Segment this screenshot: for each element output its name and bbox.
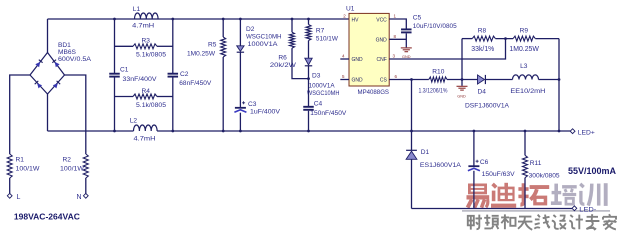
svg-text:L1: L1 [133,6,141,13]
capacitor C5 [401,29,412,32]
pin number 8 GND [394,34,397,39]
wire C5 to GND pin row [389,33,406,47]
pin name GND left2 [352,78,364,84]
resistor R4 [133,94,157,99]
svg-text:D2: D2 [246,26,255,33]
junction dot bus D1 [410,130,413,133]
junction dots D2 C3 [239,18,242,133]
svg-text:L: L [17,194,21,201]
capacitor C1 [109,74,120,77]
wire bridge left vertex to L input [10,75,30,154]
svg-text:4.7mH: 4.7mH [132,23,154,30]
svg-text:10uF/10V/0805: 10uF/10V/0805 [413,23,457,30]
wire R4 rung [115,96,173,98]
label C5 [413,15,457,30]
label GND net CS [457,93,466,98]
wire CS junction down to bus [411,80,413,132]
svg-text:R4: R4 [142,88,151,95]
wire bridge positive output riser [47,19,49,53]
wire R8 left corner [462,38,472,40]
svg-text:R9: R9 [520,28,529,35]
svg-text:C1: C1 [120,67,129,74]
label GND net C5 [402,54,411,59]
wire left ladder rail lower [114,78,116,132]
label D2 [246,26,282,48]
wire bus to D1 [411,131,413,150]
svg-text:510/1W: 510/1W [316,36,339,43]
watermark red characters yi di tuo pei xun [467,183,606,208]
svg-text:C5: C5 [413,15,422,22]
svg-text:1uF/400V: 1uF/400V [250,109,281,116]
label R7 [316,28,339,43]
svg-text:C6: C6 [480,159,489,166]
wire D2 to C3 [239,52,241,108]
terminal LED+ [570,129,595,137]
svg-text:D1: D1 [421,149,430,156]
pin number 4 GND [342,54,345,59]
label L3 [510,63,545,95]
svg-text:C3: C3 [248,101,257,108]
wire R6 top [291,19,293,32]
svg-text:R10: R10 [432,68,444,75]
svg-text:EE10/2mH: EE10/2mH [510,88,545,95]
resistor R1 [7,154,12,178]
resistor R11 [523,155,528,177]
wire R3 rung [115,45,173,47]
svg-text:150nF/450V: 150nF/450V [310,110,347,117]
svg-text:BD1: BD1 [58,42,71,49]
svg-text:D3: D3 [312,73,321,80]
pin name CNF [377,57,387,63]
svg-text:N: N [77,194,82,201]
pin name GND left1 [352,57,364,63]
svg-text:D4: D4 [478,89,487,96]
svg-text:150uF/63V: 150uF/63V [482,171,516,178]
svg-text:MB6S: MB6S [58,49,77,56]
wire D4 to L3 [485,79,512,81]
svg-text:ES1J600V1A: ES1J600V1A [420,162,462,169]
wire bottom bus mid segment [157,130,570,132]
svg-text:300k/0805: 300k/0805 [529,173,560,180]
svg-text:GND: GND [352,78,364,84]
svg-text:HV: HV [352,18,360,24]
pin number 2 HV [343,14,346,19]
svg-text:GND: GND [376,38,388,44]
wire D1 to LED- rail [411,159,413,208]
junction dots right riser [558,78,561,132]
svg-text:C4: C4 [314,100,323,107]
svg-text:600V/0.5A: 600V/0.5A [58,56,92,63]
inductor L1 [135,13,159,19]
svg-text:55V/100mA: 55V/100mA [568,166,616,176]
wire right ladder rail upper [172,19,174,73]
svg-text:L3: L3 [520,63,528,70]
wire bridge right vertex to N input [65,75,86,154]
label R10 [419,68,448,94]
label R11 [529,160,560,180]
label R2 [60,157,85,173]
svg-text:CS: CS [380,78,388,84]
terminal N [77,193,89,201]
svg-text:1000V1A: 1000V1A [309,82,336,89]
pin name VCC [376,18,387,24]
label R5 [187,41,217,57]
resistor R8 [472,36,495,41]
svg-text:DSF1J600V1A: DSF1J600V1A [465,103,510,110]
label C4 [310,100,347,117]
svg-text:R2: R2 [63,157,72,164]
diode D2 [237,46,244,52]
pin name GND right [376,38,388,44]
wire LED- rail [412,208,573,210]
diode D3 [305,58,312,66]
inductor L3 [513,75,539,80]
junction dot R6 top [291,18,294,21]
junction dot R11 top [524,130,527,133]
wire R1 to L terminal [9,178,11,193]
resistor R2 [83,154,88,178]
svg-text:68nF/450V: 68nF/450V [179,80,212,87]
svg-text:R7: R7 [316,28,325,35]
wire bus to C6 [473,131,475,166]
wire left ladder rail upper [114,19,116,73]
pin number 3 CNF [393,54,396,59]
wire R10 to D4 [447,79,478,81]
label MP4088GS [358,89,390,96]
wire C3 bottom [239,113,241,131]
svg-text:1M0.25W: 1M0.25W [187,51,216,58]
bridge diode top-right [52,60,59,67]
resistor R3 [133,44,157,49]
junction dots R5 [222,18,225,133]
svg-text:1.3/1206/1%: 1.3/1206/1% [419,88,448,95]
pin number 5 GND [342,74,345,79]
wire C6 to LED- rail [473,171,475,209]
diode D1 [406,150,417,159]
svg-text:R5: R5 [208,41,217,48]
wire U1 GND pin stub 5 [340,79,349,81]
bridge rectifier BD1 diamond outline [30,53,65,95]
resistor R5 [221,37,226,57]
svg-text:5.1k/0805: 5.1k/0805 [136,102,166,109]
label C3 [248,101,281,116]
svg-text:198VAC-264VAC: 198VAC-264VAC [14,212,80,222]
svg-text:R1: R1 [16,157,25,164]
junction dot GND vertical [461,78,464,81]
ground CS line [457,80,468,91]
svg-text:CNF: CNF [377,57,387,63]
wire R7 to D3 [308,41,310,59]
label L2 [130,118,156,143]
wire R5 top [222,19,224,37]
svg-text:GND: GND [457,93,466,98]
svg-text:33nF/400V: 33nF/400V [123,76,158,83]
svg-text:R8: R8 [478,28,487,35]
svg-text:R6: R6 [278,54,287,61]
svg-text:LED+: LED+ [578,130,595,137]
resistor R9 [513,36,535,41]
label U1 [346,6,355,13]
bridge diode bottom-right [53,81,60,89]
op-amp U1 body MP4088GS [349,13,389,86]
label D3 [307,73,340,97]
svg-text:VCC: VCC [376,18,387,24]
wire D3 to C4 [308,66,310,107]
junction dots R7 chain [307,18,310,133]
wire CS pin to R10 [389,79,429,81]
capacitor C4 [303,107,314,110]
label R4 [136,88,166,109]
svg-text:MP4088GS: MP4088GS [358,89,390,96]
junction dots ladder [113,18,174,133]
wire R11 to LED- rail [524,178,526,209]
svg-text:100/1W: 100/1W [16,166,41,173]
wire right riser [558,39,560,131]
label R1 [16,157,41,173]
resistor R7 [306,25,311,41]
ground C5 [401,48,412,52]
svg-text:33k/1%: 33k/1% [471,46,494,53]
pin name CS [380,78,388,84]
wire R5 bottom [222,57,224,131]
svg-text:5.1k/0805: 5.1k/0805 [136,52,166,59]
wire L3 to right riser [539,79,560,81]
svg-text:4.7mH: 4.7mH [134,136,156,143]
pin number 6 CS [395,74,398,79]
svg-text:100/1W: 100/1W [60,166,85,173]
wire bus to R11 [524,131,526,155]
pin name HV [352,18,360,24]
label C2 [179,71,212,87]
capacitor C6 [468,160,480,171]
label C1 [120,67,157,84]
inductor L2 [134,125,158,131]
label D4 [465,89,510,110]
watermark gray characters rf antenna design experts [468,214,617,230]
wire C4 bottom [308,111,310,131]
label R8 [471,28,494,54]
svg-text:L2: L2 [130,118,138,125]
svg-text:1M0.25W: 1M0.25W [509,46,539,53]
svg-text:WSGC10MH: WSGC10MH [246,34,282,41]
label BD1 [58,42,92,63]
wire R2 to N terminal [85,178,87,193]
terminal LED- [572,206,596,214]
label 55V/100mA [568,166,616,176]
label 198VAC-264VAC [14,212,80,222]
svg-text:20k/2W: 20k/2W [270,62,297,69]
label C6 [480,159,515,178]
svg-text:R3: R3 [142,38,151,45]
label R9 [509,28,539,54]
wire CNF to R8-R9 junction [389,39,505,59]
label D1 [420,149,462,169]
svg-text:GND: GND [402,54,411,59]
wire right ladder rail lower [172,78,174,132]
svg-text:1000V1A: 1000V1A [248,41,279,48]
junction dot C6 top [473,130,476,133]
junction dot R8 R9 CNF [504,37,507,40]
label R6 [270,54,297,69]
resistor R6 [290,32,295,48]
svg-text:C2: C2 [180,71,189,78]
svg-text:U1: U1 [346,6,355,13]
label L1 [132,6,154,30]
svg-text:R11: R11 [530,160,542,167]
wire top rail from bridge to U1 HV pin [48,18,350,20]
wire bridge negative output to bus [47,94,49,131]
pin number 1 VCC [394,14,397,19]
wire R8 to R9 [495,38,513,40]
resistor R10 [429,77,447,82]
terminal L [7,193,20,201]
wire R7 top [308,19,310,25]
bridge diode top-left [35,60,42,67]
wire D2 top [239,19,241,46]
capacitor C3 [234,101,246,112]
bridge diode bottom-left [35,81,42,89]
wire R6 bottom to D3 junction [292,48,309,79]
svg-text:WSGC10MH: WSGC10MH [307,90,340,97]
wire VCC pin to C5 [389,19,406,29]
svg-text:LED-: LED- [579,207,596,214]
wire R9 to right riser [535,38,559,40]
wire U1 GND pin stub 4 [340,58,349,60]
svg-text:GND: GND [352,57,364,63]
wire bottom bus left segment [48,130,134,132]
label R3 [136,38,166,59]
capacitor C2 [168,74,179,77]
diode D4 [478,75,486,84]
junction dot CS D1 [410,78,413,81]
watermark underline [462,210,610,212]
wire GND vertical CNF R8 [461,39,463,80]
